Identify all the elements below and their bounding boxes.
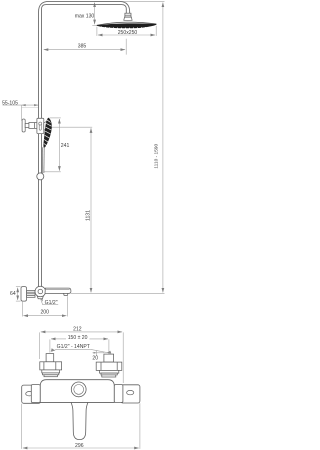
svg-text:55-105: 55-105 — [2, 100, 18, 106]
svg-text:max 130: max 130 — [75, 14, 95, 20]
svg-text:1131: 1131 — [85, 210, 91, 221]
svg-text:150 ± 20: 150 ± 20 — [68, 335, 88, 341]
svg-text:64: 64 — [10, 291, 16, 297]
svg-text:250x250: 250x250 — [118, 30, 138, 36]
svg-text:296: 296 — [75, 443, 84, 449]
svg-text:G1/2" - 14NPT: G1/2" - 14NPT — [57, 344, 90, 350]
svg-text:385: 385 — [78, 43, 87, 49]
svg-text:241: 241 — [61, 143, 70, 149]
svg-text:1110 - 1590: 1110 - 1590 — [153, 143, 159, 168]
svg-text:G1/2": G1/2" — [45, 300, 58, 306]
svg-text:20: 20 — [92, 355, 98, 361]
svg-text:200: 200 — [40, 310, 49, 316]
svg-text:212: 212 — [73, 327, 82, 333]
